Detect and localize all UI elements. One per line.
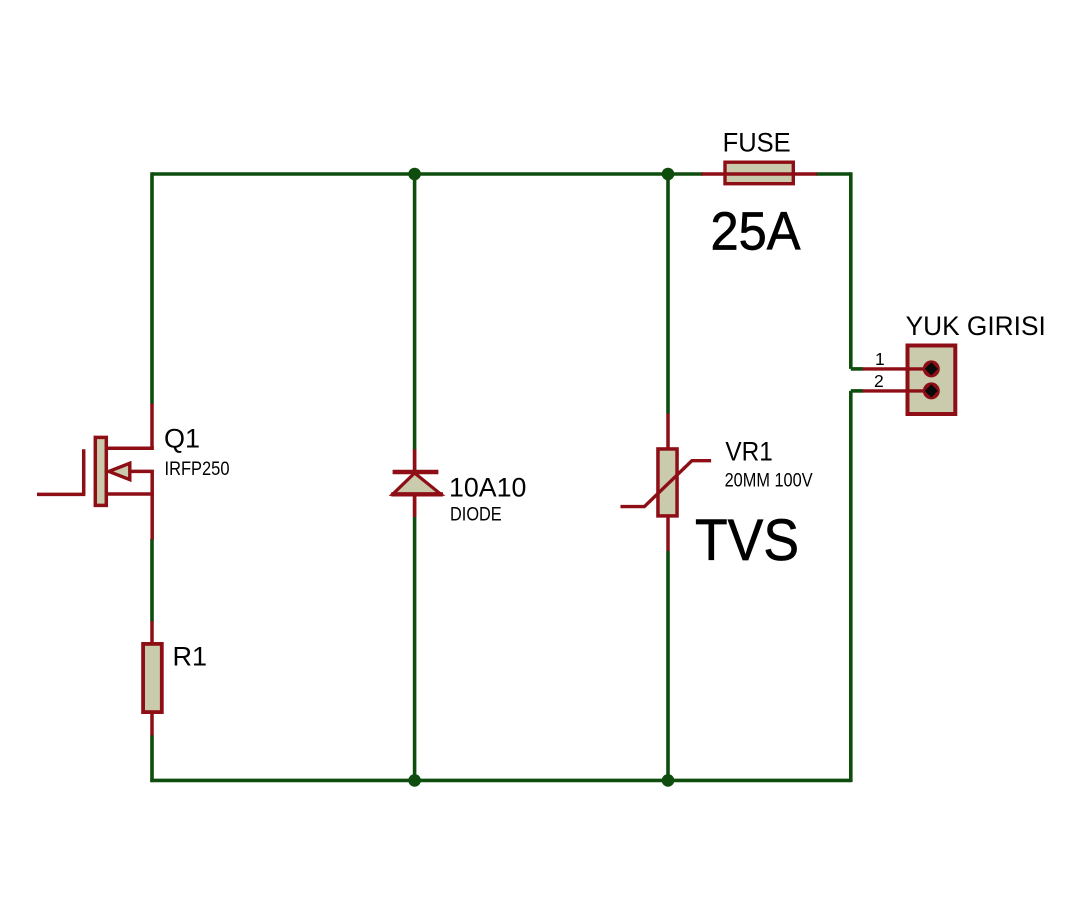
svg-text:IRFP250: IRFP250 — [165, 458, 230, 480]
svg-text:25A: 25A — [711, 203, 801, 262]
svg-text:YUK GIRISI: YUK GIRISI — [906, 311, 1046, 341]
svg-text:20MM 100V: 20MM 100V — [725, 469, 813, 491]
svg-text:VR1: VR1 — [725, 437, 772, 467]
svg-text:1: 1 — [875, 349, 885, 369]
svg-text:TVS: TVS — [695, 508, 799, 573]
svg-text:R1: R1 — [173, 642, 208, 672]
svg-text:FUSE: FUSE — [723, 128, 791, 158]
svg-text:10A10: 10A10 — [449, 473, 526, 503]
svg-text:DIODE: DIODE — [450, 503, 502, 525]
svg-text:2: 2 — [874, 371, 884, 391]
svg-text:Q1: Q1 — [164, 424, 200, 454]
